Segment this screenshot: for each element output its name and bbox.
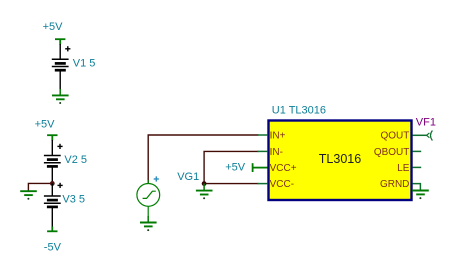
- plus sign VG1 source: [154, 176, 159, 181]
- wire jack to battery V1: [59, 44, 61, 59]
- ground (under GRND pin): [412, 191, 429, 195]
- wire VG1 source to IN+: [148, 135, 258, 183]
- pin stub VCC- (pin left 4): [258, 183, 268, 185]
- svg-text:QBOUT: QBOUT: [374, 147, 410, 158]
- wire QOUT to VF1 probe: [413, 134, 428, 136]
- svg-text:VF1: VF1: [416, 116, 436, 128]
- wire IN- net: [204, 151, 258, 183]
- svg-text:IN-: IN-: [270, 147, 283, 158]
- plus sign V3: [58, 183, 63, 188]
- battery V2: [44, 156, 61, 167]
- svg-text:QOUT: QOUT: [381, 130, 410, 141]
- voltage source VG1: [137, 180, 160, 217]
- wire battery V1 to ground: [59, 71, 61, 90]
- svg-text:+5V: +5V: [225, 162, 246, 174]
- ground (left of V2/V3 junction): [20, 191, 37, 195]
- -5V jack symbol: [47, 227, 57, 232]
- wire junction to battery V3: [51, 183, 53, 196]
- wire battery V3 to -5V jack: [51, 208, 53, 227]
- wire battery V2 to junction: [51, 167, 53, 183]
- svg-text:IN+: IN+: [270, 130, 286, 141]
- plus sign V1: [65, 46, 70, 51]
- pin stub LE (pin right 3): [413, 166, 422, 168]
- pin stub IN- (pin left 2): [258, 150, 268, 152]
- svg-text:+5V: +5V: [43, 21, 64, 33]
- +5V jack symbol (V2): [47, 135, 57, 140]
- battery V3: [44, 196, 61, 207]
- svg-text:V3 5: V3 5: [62, 194, 85, 206]
- svg-text:-5V: -5V: [44, 242, 62, 254]
- wire jack to battery V2: [51, 140, 53, 156]
- junction node dot: [50, 181, 55, 186]
- +5V jack symbol (V1): [55, 39, 65, 44]
- svg-text:GRND: GRND: [380, 179, 409, 190]
- svg-text:V1 5: V1 5: [73, 57, 96, 69]
- svg-text:+5V: +5V: [35, 118, 56, 130]
- svg-text:U1 TL3016: U1 TL3016: [272, 105, 326, 117]
- battery V1: [52, 59, 69, 70]
- ground (under V1): [52, 89, 69, 99]
- svg-text:VCC-: VCC-: [270, 179, 294, 190]
- node dot VG1 net: [202, 181, 207, 186]
- svg-text:LE: LE: [397, 163, 410, 174]
- wire junction to left ground: [28, 183, 52, 191]
- voltage pin VF1 probe: [427, 131, 433, 141]
- pin stub QBOUT (pin right 2): [413, 150, 422, 152]
- pin stub GRND (pin right 4): [413, 184, 421, 191]
- plus sign V2: [57, 144, 62, 149]
- svg-text:V2 5: V2 5: [64, 154, 87, 166]
- svg-text:TL3016: TL3016: [319, 152, 361, 166]
- pin stub IN+ (pin left 1): [258, 134, 268, 136]
- svg-text:VG1: VG1: [177, 171, 199, 183]
- IC U1 TL3016 body: [269, 121, 412, 201]
- ground (under VG1 net dot): [196, 184, 213, 195]
- ground (under VG1 source): [140, 216, 157, 226]
- svg-text:VCC+: VCC+: [270, 163, 297, 174]
- +5V jack symbol (VCC+): [253, 163, 268, 172]
